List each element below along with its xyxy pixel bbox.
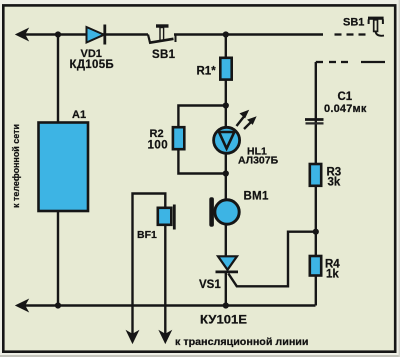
junction: R3/R4 divider / VS1 gate: [313, 229, 319, 235]
svg-text:SB1: SB1: [152, 49, 176, 61]
svg-text:АЛ307Б: АЛ307Б: [238, 155, 279, 167]
svg-text:BF1: BF1: [137, 229, 157, 241]
transformer A1: [39, 123, 89, 212]
svg-text:КУ101Е: КУ101Е: [200, 313, 247, 327]
resistor R3: [310, 164, 341, 189]
wire: middle vertical: [225, 35, 227, 257]
scan edge shading bottom: [0, 355, 400, 357]
wire: top rail: [22, 35, 323, 336]
wire: bottom rail: [22, 304, 316, 306]
arrow down BF1-right: [160, 331, 172, 343]
wire: A1 bottom to bottom rail: [57, 210, 59, 306]
svg-text:ВМ1: ВМ1: [244, 191, 269, 203]
svg-text:R1*: R1*: [197, 66, 217, 78]
svg-text:100: 100: [148, 140, 169, 152]
svg-text:0.047мк: 0.047мк: [324, 103, 367, 115]
svg-text:3k: 3k: [328, 177, 341, 189]
junction: top rail / R1 branch: [223, 31, 229, 37]
resistor R2: [148, 127, 185, 151]
svg-text:SB1: SB1: [343, 17, 364, 29]
switch SB1 second pole (top right): [343, 17, 384, 36]
junction: bottom rail / VS1 cathode: [223, 302, 229, 308]
LED HL1: [214, 111, 279, 167]
resistor R4: [310, 256, 341, 281]
svg-text:к телефонной сети: к телефонной сети: [11, 124, 22, 208]
capacitor C1: [305, 91, 367, 123]
wire: left vertical to A1: [57, 35, 59, 124]
junction: R2 top / HL1 anode: [223, 102, 229, 108]
microphone BM1: [209, 191, 269, 227]
wire: R2 loop: [178, 106, 225, 174]
dashed link top (SB1): [335, 33, 366, 35]
svg-text:R2: R2: [150, 128, 164, 140]
svg-text:КД105Б: КД105Б: [70, 59, 114, 71]
svg-text:A1: A1: [72, 109, 86, 121]
junction: R2 bottom / HL1 cathode: [223, 170, 229, 176]
junction: top rail / A1 branch: [55, 31, 61, 37]
diode VD1: [70, 25, 114, 72]
dashed link lower (to C1 branch): [316, 61, 385, 63]
wire: BF1 loop: [133, 194, 166, 336]
wire: right branch vertical (C1/R3/R4): [315, 62, 317, 306]
pushbutton SB1: [148, 26, 176, 61]
earphone BF1: [137, 205, 174, 242]
thyristor VS1: [199, 256, 247, 326]
arrow left bottom: [16, 300, 28, 312]
junction: bottom rail / A1 branch: [55, 302, 61, 308]
arrow down BF1-left: [127, 331, 139, 343]
arrow left top: [16, 29, 28, 41]
scan edge shading right: [399, 0, 400, 357]
resistor R1*: [197, 58, 232, 80]
svg-text:к трансляционной линии: к трансляционной линии: [175, 337, 309, 348]
svg-text:VS1: VS1: [199, 279, 221, 291]
wire: thyristor gate to divider: [228, 232, 315, 287]
svg-text:C1: C1: [338, 91, 353, 103]
svg-text:1k: 1k: [326, 269, 339, 281]
